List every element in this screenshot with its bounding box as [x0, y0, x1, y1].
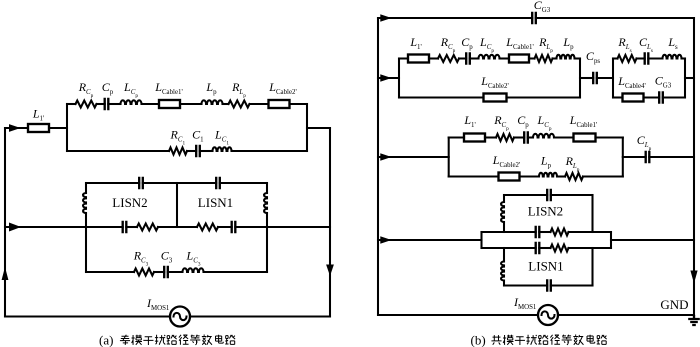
label LISN2 (b) [528, 204, 563, 219]
wire [85, 183, 87, 193]
wire [49, 127, 67, 129]
label RC1 [169, 128, 185, 147]
wire [85, 213, 87, 227]
wire [223, 103, 229, 105]
wire [200, 150, 213, 152]
current arrow (down) [326, 265, 334, 277]
label LCable1' (b1) [505, 35, 533, 51]
wire [622, 138, 624, 177]
svg-text:LISN2: LISN2 [112, 195, 147, 210]
wire [536, 17, 694, 19]
capacitor CG3 (loop) [659, 91, 663, 103]
capacitor Cp (b1) [466, 52, 470, 64]
wire [4, 128, 6, 317]
resistor RCp (b2) [496, 134, 514, 141]
resistor RC3 [134, 269, 154, 276]
label Cps [586, 49, 600, 65]
resistor RLp (b1) [535, 55, 553, 62]
wire [86, 271, 134, 273]
wire [583, 175, 623, 177]
wire [648, 57, 662, 59]
label IMOS1 (b) [513, 295, 537, 311]
inductor L1' (b1) [408, 55, 429, 63]
wire [663, 96, 685, 98]
wire [399, 57, 408, 59]
inductor LC1 [213, 147, 232, 151]
wire [158, 226, 197, 228]
label RCp (b2) [493, 113, 509, 132]
wire [448, 138, 450, 177]
wire [306, 104, 308, 151]
resistor RLs [618, 55, 637, 62]
wire [398, 59, 400, 98]
current arrow (right) [9, 124, 21, 132]
inductor Lp (a) [202, 100, 223, 104]
wire [378, 314, 538, 316]
wire [459, 57, 466, 59]
current arrow (right) [380, 14, 391, 21]
resistor RCp (a) [76, 101, 97, 108]
label LC1 [214, 128, 229, 147]
wire [579, 59, 581, 98]
wire [539, 247, 550, 249]
label CG3 (loop) [655, 74, 672, 90]
capacitor LISN1 bot cap (b) [547, 279, 551, 291]
wire [449, 175, 499, 177]
label CLs [639, 35, 653, 54]
wire [204, 271, 268, 273]
wire [485, 136, 496, 138]
wire [470, 57, 479, 59]
label LCp (b2) [537, 113, 552, 132]
current arrow (right) [380, 153, 391, 160]
inductor LCable2' (b1) [484, 94, 507, 102]
capacitor Cps [593, 72, 597, 84]
label RCp (a) [78, 80, 94, 99]
inductor Ls [663, 55, 682, 59]
label LC3 [186, 249, 201, 268]
label LCable1' (a) [154, 80, 182, 96]
wire [266, 213, 268, 227]
wire [67, 150, 169, 152]
wire [610, 232, 612, 248]
inductor LC3 [183, 268, 204, 272]
wire [126, 226, 137, 228]
inductor L1' (a) [28, 124, 49, 132]
wire [143, 182, 216, 184]
wire [329, 128, 331, 317]
wire [612, 59, 614, 98]
label LCable1' (b2) [569, 113, 597, 129]
wire [66, 104, 68, 151]
AC source IMOS1 (b) [538, 305, 558, 325]
capacitor C1 [196, 145, 200, 157]
wire [554, 136, 574, 138]
label Cp (b2) [517, 113, 529, 129]
wire [553, 57, 557, 59]
wire [693, 18, 695, 315]
capacitor LISN1 top cap [216, 177, 220, 189]
label C3 [161, 249, 173, 265]
wire [551, 194, 593, 196]
inductor L1' (b2) [464, 134, 485, 142]
wire [399, 96, 484, 98]
label Cp (b1) [461, 35, 473, 51]
wire [429, 57, 438, 59]
wire [623, 156, 646, 158]
wire [85, 227, 87, 272]
wire [5, 315, 170, 317]
wire [378, 77, 399, 79]
label RLp (b2) [565, 154, 580, 173]
capacitor LISN2 cap (b) [536, 226, 540, 238]
label CG3 (top) [534, 0, 551, 14]
label IMOS1 (a) [146, 296, 170, 312]
label L1' (b1) [409, 35, 421, 51]
label LCp (b1) [479, 35, 494, 54]
wire [108, 103, 120, 105]
capacitor LISN2 top cap (b) [547, 189, 551, 201]
current arrow (right) [9, 223, 21, 232]
inductor LISN2 left coil [83, 193, 86, 213]
wire [507, 96, 581, 98]
inductor LISN1 right coil [264, 193, 267, 213]
wire [168, 271, 183, 273]
wire [142, 103, 160, 105]
wire [154, 271, 164, 273]
wire [539, 231, 550, 233]
svg-text:LISN1: LISN1 [198, 195, 233, 210]
label RLp (b1) [538, 35, 553, 54]
label LCp (a) [123, 80, 138, 99]
wire [5, 127, 28, 129]
caption (a) differential-mode interference path equivalent circuit [99, 333, 235, 347]
wire [503, 222, 505, 232]
current arrow (right) [380, 74, 391, 81]
wire [480, 232, 482, 248]
resistor LISN1 res [197, 224, 218, 231]
wire [86, 226, 123, 228]
wire [232, 150, 308, 152]
label Lp (b2) [540, 154, 552, 170]
wire [176, 183, 178, 227]
wire [685, 77, 694, 79]
wire [377, 18, 379, 315]
wire [220, 182, 267, 184]
current arrow (up) [2, 267, 9, 280]
wire [378, 156, 449, 158]
wire [290, 103, 308, 105]
wire [649, 156, 694, 158]
wire [575, 57, 581, 59]
wire [180, 103, 202, 105]
capacitor CLp [646, 151, 650, 163]
label RC3 [133, 249, 149, 268]
wire [644, 96, 660, 98]
label L1' (b2) [463, 113, 475, 129]
svg-text:LISN2: LISN2 [528, 204, 563, 219]
wire [551, 284, 593, 286]
wire [611, 239, 694, 241]
label LCable4' [617, 74, 645, 90]
svg-text:LISN1: LISN1 [528, 259, 563, 274]
capacitor LISN1 cap (b) [536, 242, 540, 254]
label LCable2' (b1) [480, 74, 508, 90]
resistor RLp (a) [229, 101, 250, 108]
wire [591, 195, 593, 232]
AC source IMOS1 (a) [170, 307, 190, 327]
current arrow (right) [380, 236, 391, 243]
inductor Lp (b2) [539, 173, 557, 177]
wire [5, 226, 86, 228]
inductor LCable1' (b2) [574, 134, 596, 142]
inductor LISN1 coil (b) [501, 262, 504, 281]
wire [613, 96, 623, 98]
resistor RC1 [169, 148, 187, 155]
wire [218, 226, 232, 228]
wire [684, 59, 686, 98]
label LCable2' (b2) [492, 153, 520, 169]
ground [688, 315, 700, 325]
inductor Lp (b1) [557, 55, 575, 59]
resistor RCp (b1) [438, 55, 459, 62]
wire [86, 182, 139, 184]
svg-text:GND: GND [660, 297, 688, 312]
inductor LCp (b2) [533, 134, 554, 138]
wire [597, 77, 613, 79]
wire [557, 175, 565, 177]
wire [266, 227, 268, 272]
wire [67, 103, 76, 105]
svg-text:(b): (b) [471, 333, 486, 347]
capacitor CLs [645, 52, 649, 64]
wire [97, 103, 105, 105]
label Lp (a) [205, 80, 217, 96]
capacitor CG3 (top) [532, 12, 536, 24]
wire [307, 127, 330, 129]
wire [591, 248, 593, 286]
capacitor LISN2 top cap [139, 177, 143, 189]
inductor LCp (b1) [479, 55, 500, 59]
inductor LISN2 coil (b) [501, 202, 504, 222]
wire [569, 231, 612, 233]
resistor LISN2 res (b) [551, 229, 569, 236]
wire [482, 247, 536, 249]
wire [190, 315, 330, 317]
wire [504, 194, 547, 196]
label C1 [192, 128, 204, 144]
wire [266, 183, 268, 193]
wire [504, 284, 547, 286]
label LCable2' (a) [268, 80, 296, 96]
label GND [660, 297, 688, 312]
label CLp [637, 133, 652, 152]
capacitor Cp (b2) [524, 131, 528, 143]
wire [482, 231, 536, 233]
svg-text:(a): (a) [99, 333, 113, 347]
wire [378, 239, 482, 241]
label Lp (b1) [562, 35, 574, 51]
inductor LCp (a) [121, 100, 142, 104]
label LISN1 (a) [198, 195, 233, 210]
wire [449, 136, 464, 138]
wire [187, 150, 196, 152]
label RLp (a) [231, 80, 246, 99]
wire [613, 57, 618, 59]
label Ls [667, 35, 678, 51]
inductor LCable2' (b2) [499, 173, 520, 181]
wire [503, 248, 505, 262]
inductor LCable4' [623, 94, 644, 102]
wire [235, 226, 330, 228]
wire [528, 136, 533, 138]
wire [529, 57, 535, 59]
wire [503, 281, 505, 286]
inductor LCable1' (b1) [509, 55, 529, 63]
wire [520, 175, 540, 177]
capacitor C3 [164, 266, 168, 278]
label LISN2 (a) [112, 195, 147, 210]
wire [514, 136, 524, 138]
label RCp (b1) [440, 35, 456, 54]
wire [682, 57, 686, 59]
capacitor LISN2 cap [123, 221, 127, 233]
wire [250, 103, 269, 105]
resistor RLp (b2) [565, 173, 583, 180]
wire [503, 195, 505, 202]
current arrow (down) [690, 271, 697, 284]
resistor LISN1 res (b) [551, 245, 569, 252]
label Cp (a) [102, 80, 114, 96]
label RLs [617, 35, 631, 54]
wire [637, 57, 645, 59]
label LISN1 (b) [528, 259, 563, 274]
wire [500, 57, 510, 59]
inductor LCable2' (a) [269, 100, 290, 108]
capacitor LISN1 cap [232, 221, 236, 233]
caption (b) common-mode interference path equivalent circuit [471, 333, 607, 347]
label L1' (a) [32, 107, 44, 123]
wire [569, 247, 612, 249]
wire [558, 314, 694, 316]
wire [378, 17, 532, 19]
resistor LISN2 res [137, 224, 158, 231]
wire [596, 136, 623, 138]
capacitor Cp (a) [105, 98, 109, 110]
wire [580, 77, 593, 79]
inductor LCable1' (a) [159, 100, 180, 108]
